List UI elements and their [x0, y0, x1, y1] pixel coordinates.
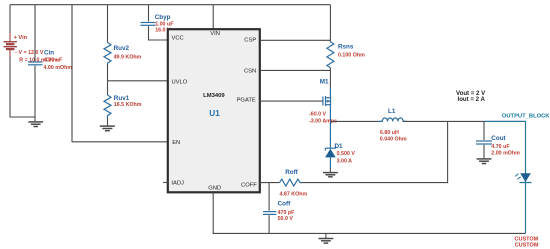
wire GND to bottom rail: [213, 193, 525, 234]
svg-text:PGATE: PGATE: [237, 98, 256, 104]
svg-text:16.5 KOhm: 16.5 KOhm: [114, 102, 142, 108]
wire UVLO: [108, 80, 169, 82]
svg-text:CSP: CSP: [244, 38, 256, 44]
wire Cin branch: [34, 5, 36, 61]
svg-text:Cbyp: Cbyp: [155, 14, 171, 21]
svg-text:COFF: COFF: [241, 182, 257, 188]
resistor Ruv2: [104, 43, 142, 66]
capacitor Cout: [476, 121, 520, 156]
wire Rsns to M1 source: [329, 68, 331, 88]
svg-text:GND: GND: [208, 185, 221, 191]
diode LED (output block): [515, 173, 531, 182]
svg-text:VCC: VCC: [172, 36, 184, 42]
svg-text:UVLO: UVLO: [172, 79, 188, 85]
op-amp U1 (IC LM3409): [168, 29, 260, 192]
capacitor Cin: [28, 50, 72, 72]
svg-text:4.87 KOhm: 4.87 KOhm: [280, 191, 308, 197]
svg-text:D1: D1: [335, 143, 344, 150]
svg-text:M1: M1: [320, 78, 329, 85]
battery Vin: [4, 35, 59, 64]
capacitor Coff: [263, 183, 295, 222]
wire Ruv2 to UVLO junction: [107, 65, 109, 81]
wire Ruv1 to ground: [107, 118, 109, 126]
svg-text:Roff: Roff: [285, 169, 298, 176]
ground (Ruv1): [100, 126, 115, 131]
wire Cout to ground: [483, 145, 485, 159]
svg-text:Ruv2: Ruv2: [114, 45, 130, 52]
svg-text:Iout = 2 A: Iout = 2 A: [458, 96, 486, 103]
svg-text:L1: L1: [388, 108, 396, 115]
svg-text:EN: EN: [172, 140, 180, 146]
svg-text:50.0 V: 50.0 V: [278, 216, 294, 222]
wire Cbyp to VCC: [149, 26, 169, 40]
wire M1 drain to SW node: [329, 105, 331, 122]
wire CSP: [260, 39, 330, 41]
wire top rail: [10, 4, 330, 6]
svg-text:2.00 mOhm: 2.00 mOhm: [491, 150, 520, 156]
svg-text:-60.0 V: -60.0 V: [309, 111, 327, 117]
svg-text:6.80 uH: 6.80 uH: [380, 130, 399, 136]
resistor Roff: [280, 169, 308, 197]
svg-text:0.040 Ohm: 0.040 Ohm: [380, 137, 407, 143]
resistor Rsns: [327, 42, 365, 68]
wire output node teal segment: [484, 121, 526, 233]
wire VIN branch: [212, 5, 214, 30]
svg-text:0.500 V: 0.500 V: [337, 151, 356, 157]
svg-text:VIN: VIN: [210, 31, 220, 37]
svg-text:U1: U1: [209, 109, 220, 118]
wire Roff to output return: [302, 182, 448, 184]
svg-text:0.100 Ohm: 0.100 Ohm: [338, 53, 365, 59]
wire Cin to ground: [34, 66, 36, 117]
svg-text:4.70 uF: 4.70 uF: [44, 58, 63, 64]
svg-text:CSN: CSN: [244, 68, 256, 74]
svg-text:Cout: Cout: [491, 135, 506, 142]
transistor M1 (PMOS): [320, 78, 331, 106]
wire EN branch: [72, 5, 168, 142]
wire battery to ground: [9, 49, 11, 57]
pin stub IADJ: [163, 181, 168, 183]
svg-text:LM3409: LM3409: [203, 93, 225, 99]
svg-text:Coff: Coff: [278, 200, 291, 207]
diode D1 (schottky): [325, 121, 355, 172]
wire PGATE: [260, 100, 323, 102]
svg-text:Ruv1: Ruv1: [114, 95, 130, 102]
svg-text:4.00 mOhm: 4.00 mOhm: [44, 65, 73, 71]
svg-text:CUSTOM: CUSTOM: [515, 236, 539, 242]
inductor L1: [379, 108, 407, 143]
ground (Cout): [477, 159, 492, 164]
wire COFF: [260, 182, 280, 184]
ground (bottom rail): [319, 233, 334, 243]
svg-text:4.70 uF: 4.70 uF: [491, 144, 510, 150]
svg-text:3.00 A: 3.00 A: [337, 158, 353, 164]
svg-text:OUTPUT_BLOCK: OUTPUT_BLOCK: [502, 114, 550, 120]
svg-text:V = 12.0 V: V = 12.0 V: [19, 50, 44, 56]
wire SW node to L1: [330, 120, 382, 122]
ground (battery/Cin): [28, 117, 43, 127]
wire L1 to output node: [403, 120, 484, 122]
wire battery branch top: [9, 5, 11, 33]
resistor Ruv1: [104, 81, 142, 118]
wire top rail corner down to CSP: [329, 5, 331, 42]
svg-text:CUSTOM: CUSTOM: [515, 243, 539, 249]
wire output return vertical: [447, 121, 449, 183]
wire Cbyp branch: [148, 5, 150, 22]
svg-text:Rsns: Rsns: [338, 44, 354, 51]
svg-text:49.9 KOhm: 49.9 KOhm: [114, 54, 142, 60]
wire Ruv branch top: [107, 5, 109, 43]
svg-text:Cin: Cin: [44, 50, 54, 57]
wire Coff to bottom rail: [268, 215, 270, 233]
ground (D1): [323, 173, 338, 177]
svg-text:Vin: Vin: [18, 35, 27, 41]
wire CSN: [260, 69, 330, 71]
capacitor Cbyp: [141, 14, 175, 34]
svg-text:IADJ: IADJ: [171, 181, 184, 187]
